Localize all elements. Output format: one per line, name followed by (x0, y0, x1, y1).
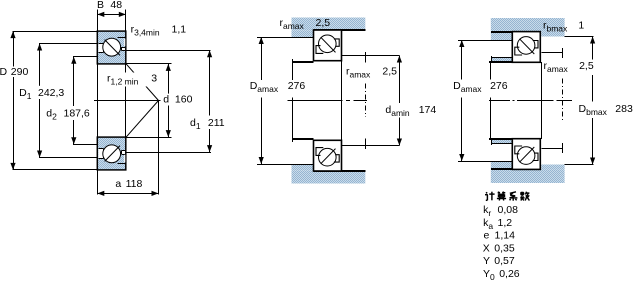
svg-text:1,14: 1,14 (495, 230, 516, 242)
wire apex extension line (158, 101, 160, 195)
wire ball diagonal (321, 149, 336, 164)
axis centerline left figure (94, 100, 160, 102)
bearing section right top (512, 32, 540, 63)
label r1,2min mask (104, 73, 148, 87)
wire shaft surface top (293, 61, 314, 63)
axis centerline middle figure (287, 100, 367, 102)
svg-text:174: 174 (419, 104, 437, 116)
svg-text:Y: Y (483, 255, 490, 267)
svg-text:1: 1 (578, 19, 584, 31)
wire sleeve left edge top (491, 56, 493, 62)
housing shoulder tab top (middle figure) (292, 30, 314, 37)
wire ra extension top (right) (541, 52, 563, 54)
svg-text:283: 283 (615, 103, 633, 115)
wire housing recess line / rb extension top (564, 36, 593, 38)
svg-text:0,35: 0,35 (494, 242, 515, 254)
wire ra tick bottom (365, 138, 367, 149)
wire housing bore line top (314, 29, 366, 31)
raceway shoulder marks (515, 47, 522, 55)
housing shoulder tab bottom (right figure) (491, 161, 513, 169)
ring gap notch right top (121, 47, 125, 50)
wire outer ring race shoulder top (118, 37, 126, 39)
ball middle bottom (319, 148, 337, 166)
dimension d2 187,6 (73, 56, 97, 58)
wire sleeve top line (491, 57, 512, 59)
label r_amax shaft mask (345, 66, 398, 82)
wire housing bore line bottom (314, 170, 366, 172)
dimension D 290 (12, 31, 97, 33)
wire housing shoulder line top / Damax extension (257, 37, 314, 39)
svg-text:D: D (0, 66, 8, 78)
svg-text:X: X (483, 242, 490, 254)
svg-text:48: 48 (110, 0, 122, 11)
ball top (left figure) (103, 38, 121, 56)
svg-text:d: d (163, 94, 169, 106)
ring gap notch left top (98, 43, 103, 53)
ring gap notch left bottom (98, 148, 103, 158)
svg-text:0,57: 0,57 (494, 255, 515, 267)
wire right face line (125, 64, 127, 137)
wire ball diagonal (321, 37, 336, 52)
wire ball diagonal (520, 39, 535, 54)
housing recess bottom right (541, 165, 564, 170)
wire sleeve bottom line (491, 143, 512, 145)
raceway shoulder marks (316, 46, 323, 54)
wire shaft surface top (right) (489, 61, 512, 63)
svg-text:2,5: 2,5 (579, 60, 594, 72)
wire ra tick top (right) (562, 48, 564, 58)
outer ring relief top (124, 39, 125, 47)
svg-text:160: 160 (175, 94, 193, 106)
ring gap notch right bottom (121, 151, 125, 154)
bearing section middle bottom (314, 140, 342, 171)
wire shaft shoulder da extension bottom (342, 145, 400, 147)
housing recess top right (541, 32, 564, 37)
ball right bottom (517, 147, 535, 165)
wire housing shoulder line bottom / Damax extension (257, 164, 314, 166)
dimension d 160 (126, 63, 172, 65)
wire housing bore line bottom (right) (491, 168, 513, 170)
dimension a 118 (97, 193, 158, 195)
svg-text:a: a (115, 178, 121, 190)
svg-text:2,5: 2,5 (382, 66, 397, 78)
wire ra tick bottom (right) (562, 143, 564, 153)
wire ball diagonal top (105, 40, 120, 56)
housing shoulder tab bottom (middle figure) (292, 164, 314, 171)
housing block top (middle figure) (292, 18, 366, 31)
wire left face line (97, 64, 99, 137)
svg-text:290: 290 (11, 66, 29, 78)
dimension Dbmax 283 (592, 37, 594, 165)
axis centerline right figure (489, 100, 572, 102)
bearing cross-section top (outer+inner ring) (97, 31, 126, 64)
wire shaft shoulder da extension top (342, 55, 400, 57)
dimension D1 242,3 (39, 43, 98, 45)
label r_amax right mask (542, 60, 593, 76)
raceway shoulder marks (515, 146, 522, 154)
wire shaft surface bottom (293, 138, 314, 140)
dimension Damax 276 (middle) (261, 37, 263, 164)
abutment sleeve bottom (right figure) (491, 139, 512, 143)
bearing cross-section bottom (outer+inner ring) (97, 137, 126, 170)
wire housing shoulder / Damax extension top (right) (458, 40, 512, 42)
wire housing shoulder / Damax extension bottom (right) (458, 161, 512, 163)
ball middle top (319, 35, 337, 53)
svg-text:0,26: 0,26 (499, 268, 520, 280)
wire sleeve left edge bottom (491, 139, 493, 145)
wire ra tick top (365, 52, 367, 63)
wire vertical centerline at ra point (365, 84, 367, 117)
dimension B 48 (97, 14, 126, 16)
svg-text:276: 276 (490, 80, 508, 92)
svg-text:242,3: 242,3 (38, 87, 64, 99)
svg-text:e: e (484, 230, 490, 242)
svg-text:1,1: 1,1 (172, 24, 187, 36)
wire shaft surface bottom (right) (489, 138, 512, 140)
dimension Damax 276 (right) (461, 40, 463, 161)
ball right top (517, 37, 535, 55)
housing shoulder tab top (right figure) (491, 32, 513, 40)
wire shaft end face line (right figure) (490, 62, 492, 139)
wire B right extension line (125, 10, 127, 32)
heading calculation factors (CJK) (485, 192, 529, 201)
wire housing bore line top (right) (491, 31, 513, 33)
housing block top (right figure) (491, 18, 565, 32)
svg-text:2,5: 2,5 (316, 17, 331, 29)
abutment sleeve top (right figure) (491, 58, 512, 62)
svg-text:B: B (97, 0, 104, 11)
wire contact angle line upper (105, 40, 159, 101)
bearing section middle top (314, 30, 342, 61)
svg-text:3: 3 (151, 73, 157, 85)
wire ra extension bottom (right) (541, 148, 563, 150)
svg-text:118: 118 (126, 178, 143, 190)
wire outer ring race shoulder bottom (118, 163, 126, 165)
wire bearing right face line (right figure) (541, 62, 543, 139)
svg-text:211: 211 (208, 117, 225, 129)
raceway shoulder marks (316, 148, 323, 156)
bearing section right bottom (512, 139, 540, 170)
ball bottom (left figure) (103, 145, 121, 163)
wire shaft shoulder face (middle figure) (292, 59, 294, 142)
wire housing recess line / rb extension bottom (564, 164, 593, 166)
wire ball diagonal (520, 147, 535, 162)
wire contact angle line lower (105, 101, 159, 162)
outer ring relief bottom (124, 155, 125, 163)
housing block bottom (right figure) (491, 169, 565, 183)
dimension d1 211 (126, 50, 211, 52)
wire left face extension to a-line (97, 170, 99, 194)
housing block bottom (middle figure) (292, 171, 366, 184)
wire ball diagonal bottom (105, 146, 120, 162)
wire bearing right face line (middle figure) (341, 61, 343, 141)
svg-text:276: 276 (288, 80, 306, 92)
wire B left extension line (97, 10, 99, 32)
svg-text:1,2: 1,2 (498, 217, 513, 229)
wire vertical centerline at ra point (right) (562, 79, 564, 123)
svg-text:187,6: 187,6 (64, 107, 90, 119)
dimension d_amin 174 (399, 56, 401, 146)
svg-text:0,08: 0,08 (498, 204, 519, 216)
